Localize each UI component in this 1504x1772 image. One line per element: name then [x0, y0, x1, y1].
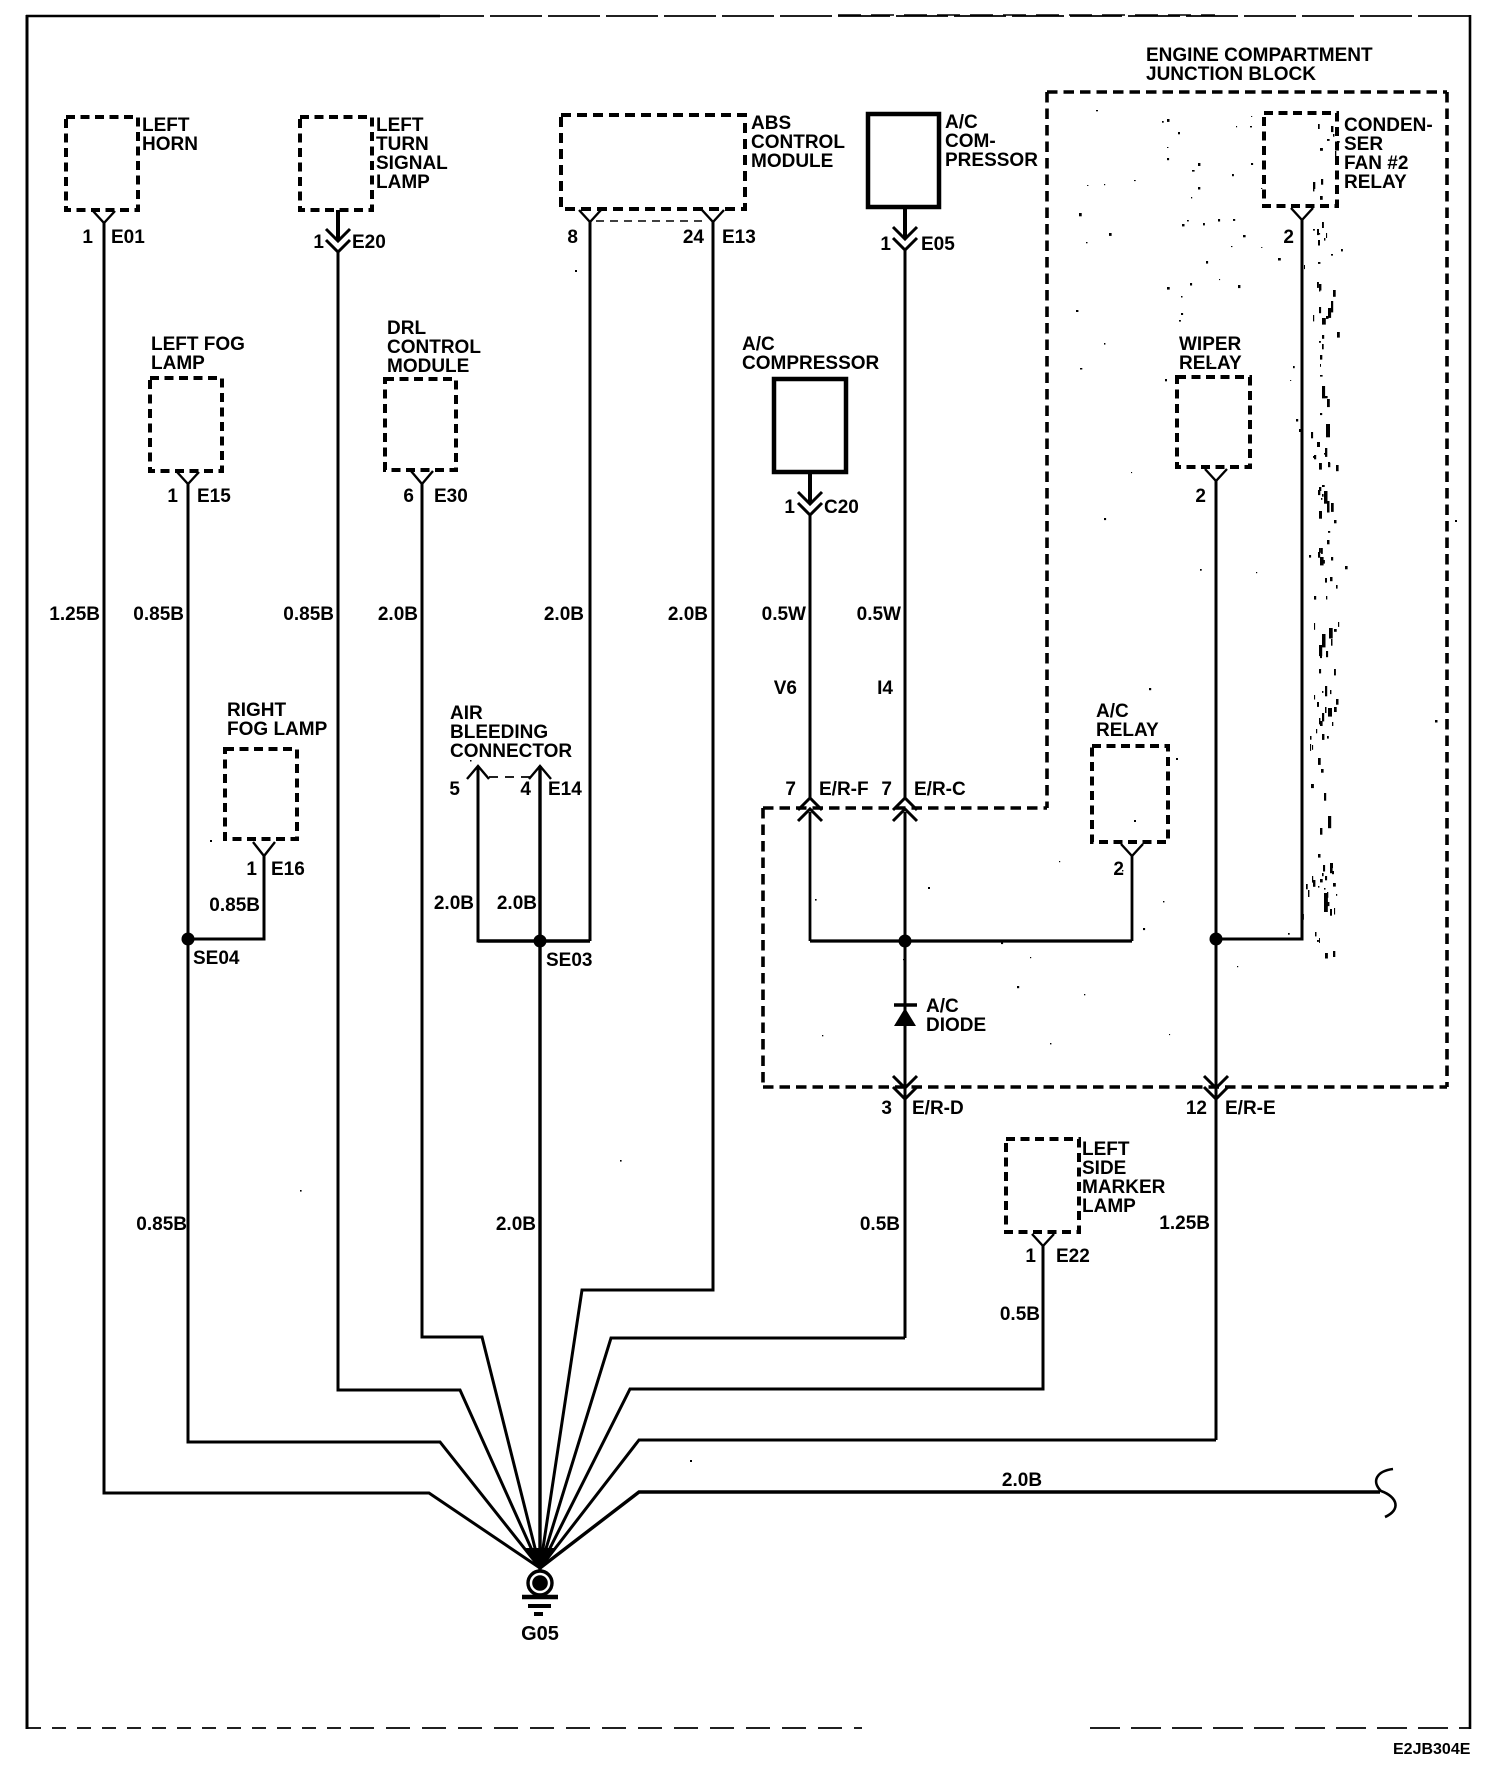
svg-text:MARKER: MARKER [1082, 1177, 1166, 1198]
scan noise (decorative) [210, 110, 1457, 1462]
wire pin24 E13 to ground, 2.0B [540, 222, 713, 1568]
block ENGINE COMPARTMENT JUNCTION BLOCK outline [763, 45, 1447, 1087]
svg-text:LAMP: LAMP [376, 172, 430, 193]
svg-text:BLEEDING: BLEEDING [450, 722, 548, 743]
svg-text:DIODE: DIODE [926, 1015, 986, 1036]
wire E05 to E/R-C, 0.5W I4 [857, 248, 905, 800]
relay WIPER RELAY [1177, 334, 1250, 467]
svg-text:1: 1 [246, 859, 257, 880]
svg-text:2.0B: 2.0B [1002, 1470, 1042, 1491]
wire E22 to ground, 0.5B [540, 1246, 1043, 1568]
pin 1 C20 connector chevron [784, 472, 858, 518]
svg-text:1: 1 [167, 486, 178, 507]
svg-text:1: 1 [313, 232, 324, 253]
svg-text:2.0B: 2.0B [497, 893, 537, 914]
wire 2.0B to other page with squiggle end [540, 1469, 1396, 1568]
pin 24 E13 [683, 210, 756, 248]
wire E15/SE04 to ground, 0.85B labels [133, 484, 540, 1568]
pin 5 arrow [449, 766, 489, 800]
wire E/R-C down through diode to E/R-D [904, 812, 907, 1338]
svg-text:1: 1 [784, 497, 795, 518]
pin 1 E16 [246, 842, 304, 880]
svg-text:A/C: A/C [926, 996, 959, 1017]
svg-text:CONTROL: CONTROL [751, 132, 845, 153]
svg-text:LAMP: LAMP [1082, 1196, 1136, 1217]
svg-text:MODULE: MODULE [751, 151, 833, 172]
component A/C COMPRESSOR (E05) [868, 112, 1038, 207]
svg-text:2.0B: 2.0B [668, 604, 708, 625]
wire C20 to E/R-F, 0.5W V6 [762, 513, 810, 800]
svg-text:RELAY: RELAY [1096, 720, 1159, 741]
relay A/C RELAY [1092, 701, 1168, 842]
svg-text:E20: E20 [352, 232, 386, 253]
connector LEFT TURN SIGNAL LAMP (E20) [300, 115, 448, 210]
svg-text:SIGNAL: SIGNAL [376, 153, 448, 174]
svg-text:2: 2 [1283, 227, 1294, 248]
svg-text:0.5W: 0.5W [762, 604, 806, 625]
svg-text:E05: E05 [921, 234, 955, 255]
svg-text:SE04: SE04 [193, 948, 240, 969]
pin 6 E30 [403, 471, 467, 507]
svg-text:SE03: SE03 [546, 950, 592, 971]
wire E/R-F down to bus [809, 812, 812, 941]
svg-text:0.85B: 0.85B [283, 604, 334, 625]
svg-text:E/R-D: E/R-D [912, 1098, 964, 1119]
svg-text:CONTROL: CONTROL [387, 337, 481, 358]
junction dot on bus [899, 935, 912, 948]
wire E/R-E to ground, 1.25B [540, 1213, 1216, 1568]
dashed tie line between pin 8 and pin 24 [596, 220, 707, 222]
svg-text:1.25B: 1.25B [49, 604, 100, 625]
pin 7 E/R-F up chevron [785, 779, 868, 821]
svg-text:5: 5 [449, 779, 460, 800]
wire condenser fan relay to wiper relay wire [1216, 220, 1302, 939]
svg-text:0.5B: 0.5B [1000, 1304, 1040, 1325]
svg-text:0.5B: 0.5B [860, 1214, 900, 1235]
svg-text:WIPER: WIPER [1179, 334, 1242, 355]
svg-text:E16: E16 [271, 859, 305, 880]
svg-text:12: 12 [1186, 1098, 1207, 1119]
svg-text:MODULE: MODULE [387, 356, 469, 377]
svg-text:FOG LAMP: FOG LAMP [227, 719, 328, 740]
svg-text:0.85B: 0.85B [136, 1214, 187, 1235]
svg-text:2.0B: 2.0B [496, 1214, 536, 1235]
svg-text:2: 2 [1113, 859, 1124, 880]
svg-text:2.0B: 2.0B [544, 604, 584, 625]
svg-text:A/C: A/C [742, 334, 775, 355]
svg-text:8: 8 [567, 227, 578, 248]
svg-text:0.85B: 0.85B [133, 604, 184, 625]
svg-text:HORN: HORN [142, 134, 198, 155]
svg-text:E14: E14 [548, 779, 582, 800]
svg-text:SIDE: SIDE [1082, 1158, 1126, 1179]
svg-text:E01: E01 [111, 227, 145, 248]
wire E01 to ground, 1.25B [49, 223, 540, 1568]
svg-text:7: 7 [881, 779, 892, 800]
wire A/C relay down to bus [1131, 856, 1134, 941]
svg-text:1.25B: 1.25B [1159, 1213, 1210, 1234]
svg-text:LEFT: LEFT [142, 115, 190, 136]
svg-text:I4: I4 [877, 678, 893, 699]
svg-text:3: 3 [881, 1098, 892, 1119]
svg-text:A/C: A/C [1096, 701, 1129, 722]
pin 1 E15 [167, 472, 231, 507]
svg-text:V6: V6 [774, 678, 797, 699]
connector LEFT FOG LAMP (E15) [150, 334, 245, 471]
svg-text:COM-: COM- [945, 131, 996, 152]
connector LEFT SIDE MARKER LAMP (E22) [1006, 1139, 1166, 1232]
wire E/R-D to ground, 0.5B [540, 1214, 905, 1568]
wire E30 to ground, 2.0B [378, 484, 540, 1568]
svg-text:G05: G05 [521, 1623, 559, 1645]
pin 1 E05 connector chevron [880, 207, 955, 255]
svg-text:E15: E15 [197, 486, 231, 507]
pin 12 E/R-E down chevron [1186, 1076, 1276, 1119]
dashed tie line between pin 5 and pin 4 [489, 776, 530, 778]
svg-text:1: 1 [880, 234, 891, 255]
svg-text:JUNCTION BLOCK: JUNCTION BLOCK [1146, 64, 1316, 85]
wire wiper relay down to E/R-E [1215, 481, 1218, 1440]
wire bus to A/C relay [810, 939, 1132, 942]
svg-text:COMPRESSOR: COMPRESSOR [742, 353, 880, 374]
connector RIGHT FOG LAMP (E16) [225, 700, 328, 839]
svg-text:LEFT: LEFT [1082, 1139, 1130, 1160]
svg-text:A/C: A/C [945, 112, 978, 133]
svg-text:FAN #2: FAN #2 [1344, 153, 1408, 174]
svg-text:ENGINE COMPARTMENT: ENGINE COMPARTMENT [1146, 45, 1373, 66]
svg-text:AIR: AIR [450, 703, 483, 724]
svg-text:SER: SER [1344, 134, 1383, 155]
junction dot wiper/condenser [1210, 933, 1223, 946]
relay CONDENSER FAN #2 RELAY [1264, 113, 1433, 206]
wire E20 to ground, 0.85B [283, 250, 540, 1568]
connector LEFT HORN (E01) [66, 115, 198, 210]
svg-text:TURN: TURN [376, 134, 429, 155]
svg-text:E/R-C: E/R-C [914, 779, 966, 800]
module DRL CONTROL MODULE (E30) [385, 318, 481, 470]
junction SE03 [534, 935, 593, 972]
svg-text:E/R-E: E/R-E [1225, 1098, 1276, 1119]
diode A/C DIODE [894, 996, 986, 1036]
svg-text:LEFT FOG: LEFT FOG [151, 334, 245, 355]
pin 1 E20 connector chevron [313, 210, 385, 253]
svg-text:6: 6 [403, 486, 414, 507]
wire pin5 to SE03 bus, 2.0B [434, 766, 540, 941]
svg-text:RELAY: RELAY [1344, 172, 1407, 193]
svg-text:0.5W: 0.5W [857, 604, 901, 625]
svg-text:CONDEN-: CONDEN- [1344, 115, 1433, 136]
wire pin8 to SE03, 2.0B [544, 222, 590, 941]
svg-text:LEFT: LEFT [376, 115, 424, 136]
svg-text:E2JB304E: E2JB304E [1393, 1741, 1471, 1758]
pin 1 E22 [1025, 1234, 1089, 1267]
svg-text:CONNECTOR: CONNECTOR [450, 741, 572, 762]
svg-text:ABS: ABS [751, 113, 791, 134]
ground G05 [521, 1548, 559, 1645]
svg-text:LAMP: LAMP [151, 353, 205, 374]
wire pin4 down to SE03 and ground, 2.0B [496, 766, 540, 1570]
svg-text:1: 1 [82, 227, 93, 248]
svg-text:7: 7 [785, 779, 796, 800]
pin 2 of A/C relay [1113, 844, 1143, 880]
svg-text:4: 4 [520, 779, 531, 800]
svg-text:0.85B: 0.85B [209, 895, 260, 916]
pin 8 [567, 210, 601, 248]
junction SE04 [182, 933, 240, 970]
svg-text:2.0B: 2.0B [434, 893, 474, 914]
module ABS CONTROL MODULE (E13) [561, 113, 845, 209]
svg-text:2: 2 [1195, 486, 1206, 507]
svg-text:1: 1 [1025, 1246, 1036, 1267]
pin 7 E/R-C up chevron [881, 779, 966, 821]
connector AIR BLEEDING CONNECTOR (E14) [450, 703, 572, 762]
component A/C COMPRESSOR (C20) [742, 334, 880, 472]
svg-text:24: 24 [683, 227, 705, 248]
svg-text:RIGHT: RIGHT [227, 700, 287, 721]
svg-text:E/R-F: E/R-F [819, 779, 869, 800]
svg-text:2.0B: 2.0B [378, 604, 418, 625]
svg-text:C20: C20 [824, 497, 859, 518]
pin 2 of condenser fan relay [1283, 208, 1313, 248]
wire bus SE03 [478, 939, 590, 942]
pin 4 arrow E14 [520, 766, 582, 800]
pin 2 of wiper relay [1195, 469, 1227, 507]
svg-text:E22: E22 [1056, 1246, 1090, 1267]
wire E16 to SE04, 0.85B [188, 856, 264, 939]
svg-text:E13: E13 [722, 227, 756, 248]
svg-text:PRESSOR: PRESSOR [945, 150, 1038, 171]
svg-text:E30: E30 [434, 486, 468, 507]
svg-text:DRL: DRL [387, 318, 426, 339]
pin 3 E/R-D down chevron [881, 1076, 963, 1119]
pin 1 E01 [93, 211, 115, 223]
